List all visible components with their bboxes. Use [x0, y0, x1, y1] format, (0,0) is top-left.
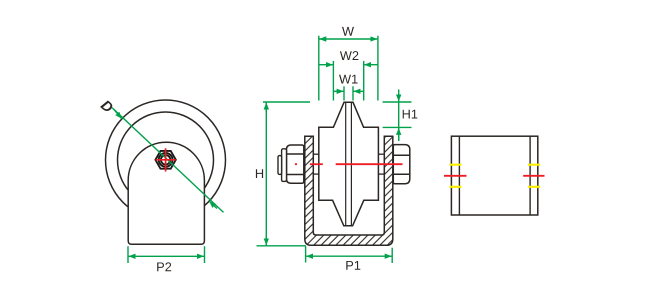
dimension H: [257, 102, 311, 246]
hub boss right: [378, 154, 384, 174]
dimension W2: [319, 61, 378, 101]
dimension H1: [383, 90, 412, 142]
axle shaft line left: [345, 102, 347, 226]
right hex nut (side): [393, 145, 410, 184]
label W2: [340, 51, 359, 60]
red hole centerline left: [444, 175, 467, 177]
left hex nut (side): [287, 145, 304, 183]
left fold line: [458, 136, 460, 215]
wheel inner circle: [118, 112, 214, 208]
diameter dimension D (green diagonal): [112, 108, 224, 213]
dimension W: [319, 36, 378, 101]
yellow hole marks left: [449, 165, 461, 187]
axle hex nut (front): [155, 151, 175, 169]
red centerline: [295, 163, 403, 165]
hub boss left: [313, 154, 319, 174]
label D: [100, 99, 114, 113]
dimension W1: [333, 86, 363, 100]
label W1: [339, 75, 358, 84]
axle shaft line right: [350, 102, 352, 226]
red center crosshair: [156, 148, 176, 171]
bracket outline: [451, 136, 537, 215]
label H: [256, 169, 263, 178]
label P2: [157, 262, 171, 271]
label H1: [403, 110, 418, 119]
right fold line: [529, 136, 531, 215]
label P1: [346, 261, 360, 270]
label W: [342, 27, 354, 36]
U-channel bracket with hatching: [305, 136, 393, 245]
dimension P2: [128, 246, 205, 263]
bolt tip: [278, 156, 282, 175]
bracket (tombstone body, covers lower arcs): [128, 142, 204, 244]
red hole centerline right: [523, 175, 544, 177]
yellow hole marks right: [528, 165, 540, 187]
wheel outer circle: [106, 100, 226, 220]
washer: [282, 149, 287, 182]
dimension P1: [306, 247, 393, 264]
wheel section profile: [319, 102, 379, 226]
